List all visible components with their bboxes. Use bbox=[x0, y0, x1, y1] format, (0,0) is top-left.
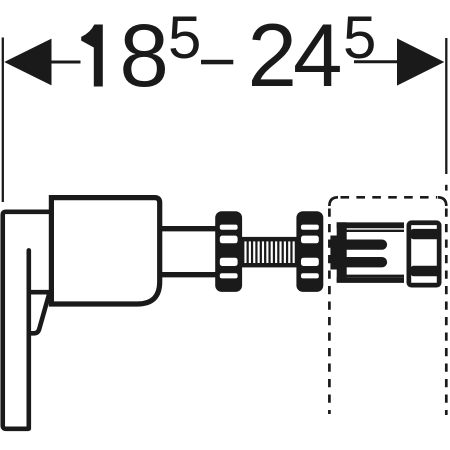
svg-text:4: 4 bbox=[293, 5, 343, 105]
fitting end nut bbox=[409, 223, 439, 285]
left nut slot 3 bbox=[220, 258, 238, 266]
housing body bbox=[51, 198, 159, 304]
svg-text:2: 2 bbox=[248, 5, 298, 105]
fitting body inner bottom line bbox=[346, 275, 404, 277]
wall bracket outline bbox=[3, 212, 52, 429]
left nut slot 4 bbox=[220, 273, 238, 278]
right extension line dash tail bbox=[445, 185, 448, 191]
fitting body bar 2 bbox=[346, 257, 382, 267]
fitting nut bottom bar bbox=[411, 266, 441, 276]
fitting body bottom edge bbox=[337, 277, 404, 283]
dashed box top-left corner bbox=[329, 197, 338, 206]
neck bottom edge bbox=[160, 272, 216, 277]
fitting body inner top line bbox=[346, 230, 404, 232]
right nut slot 2 bbox=[301, 236, 319, 244]
en dash bbox=[201, 60, 233, 65]
fitting nut top bar bbox=[411, 229, 441, 239]
thread hatching bbox=[244, 241, 294, 263]
dimension extension line right bbox=[445, 38, 447, 174]
fitting body top edge bbox=[337, 222, 404, 228]
neck top edge bbox=[160, 226, 216, 231]
left nut slot 2 bbox=[220, 236, 238, 244]
left dimension arrow bbox=[4, 39, 51, 86]
bracket diagonal foot bbox=[29, 295, 49, 334]
left rod nut bbox=[215, 211, 242, 292]
dimension extension line left bbox=[2, 38, 4, 203]
dashed box top-right corner bbox=[438, 197, 447, 206]
dashed box right edge bbox=[445, 209, 448, 416]
left nut slot 1 bbox=[220, 225, 238, 230]
dashed box top edge bbox=[341, 196, 438, 199]
bracket inner right edge bbox=[26, 250, 31, 428]
svg-text:8: 8 bbox=[119, 5, 168, 105]
dashed box left edge bbox=[328, 209, 331, 415]
right rod nut bbox=[296, 211, 323, 292]
right nut slot 3 bbox=[301, 258, 319, 266]
fitting body bar 1 bbox=[346, 239, 382, 249]
right dimension arrow bbox=[397, 38, 444, 85]
threaded rod bbox=[242, 237, 297, 268]
right dimension leader bbox=[354, 60, 399, 63]
svg-text:5: 5 bbox=[168, 4, 201, 71]
fitting body left cap bbox=[337, 222, 347, 282]
right nut slot 1 bbox=[301, 225, 319, 230]
right nut slot 4 bbox=[301, 273, 319, 278]
dimension label digit 1 bbox=[81, 25, 103, 87]
connector stem bbox=[330, 236, 337, 270]
bracket tie bar bbox=[29, 290, 51, 295]
svg-text:5: 5 bbox=[343, 4, 376, 71]
left dimension leader bbox=[50, 61, 81, 64]
